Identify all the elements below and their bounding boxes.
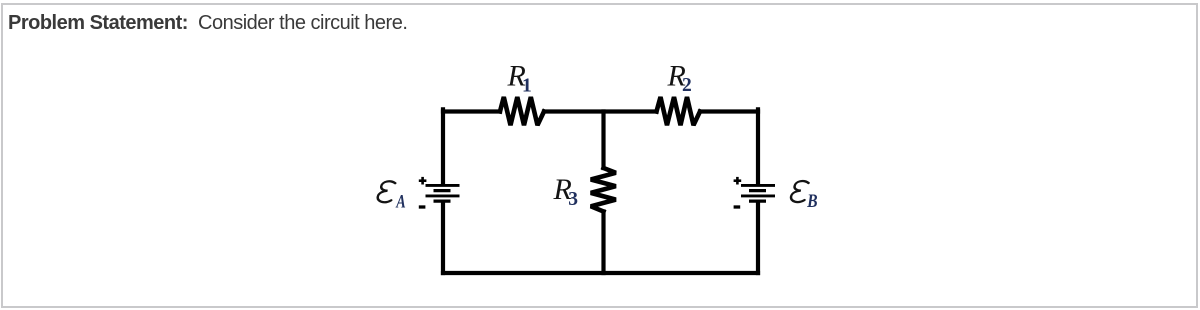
problem statement text — [8, 12, 407, 35]
svg-text:1: 1 — [522, 75, 532, 96]
resistor R2 — [657, 97, 701, 125]
wire: right branch upper (corner to battery B) — [756, 109, 760, 184]
label EB (script E with subscript B) — [790, 181, 817, 211]
resistor R3 — [591, 168, 616, 212]
label EA (script E with subscript A) — [377, 181, 406, 212]
battery EB minus sign — [734, 205, 741, 208]
label R2 — [667, 60, 692, 97]
wire: top-left segment (left corner to R1) — [443, 109, 500, 113]
wire: middle branch upper (top junction to R3) — [601, 112, 605, 169]
wire: left branch lower (battery A to bottom corner) — [441, 203, 445, 274]
battery EA plus sign — [419, 177, 427, 185]
svg-text:A: A — [395, 191, 405, 212]
wire: top-middle segment (R1 to R2 through top junction) — [544, 109, 657, 113]
battery EB plus sign — [734, 177, 742, 185]
wire: bottom segment (left corner to right corner) — [443, 271, 758, 275]
label R3 — [553, 173, 579, 210]
resistor R1 — [500, 97, 544, 125]
wire: middle branch lower (R3 to bottom junction) — [601, 212, 605, 274]
battery EA (cell plates) — [426, 185, 460, 201]
battery EA minus sign — [419, 205, 426, 208]
wire: right branch lower (battery B to bottom corner) — [756, 203, 760, 274]
wire: left branch upper (corner to battery A) — [441, 109, 445, 184]
svg-text:2: 2 — [682, 75, 692, 96]
svg-text:3: 3 — [568, 189, 578, 210]
wire: top-right segment (R2 to right corner) — [700, 109, 758, 113]
battery EB (cell plates) — [741, 185, 775, 201]
label R1 — [507, 60, 532, 97]
svg-text:B: B — [806, 191, 817, 211]
